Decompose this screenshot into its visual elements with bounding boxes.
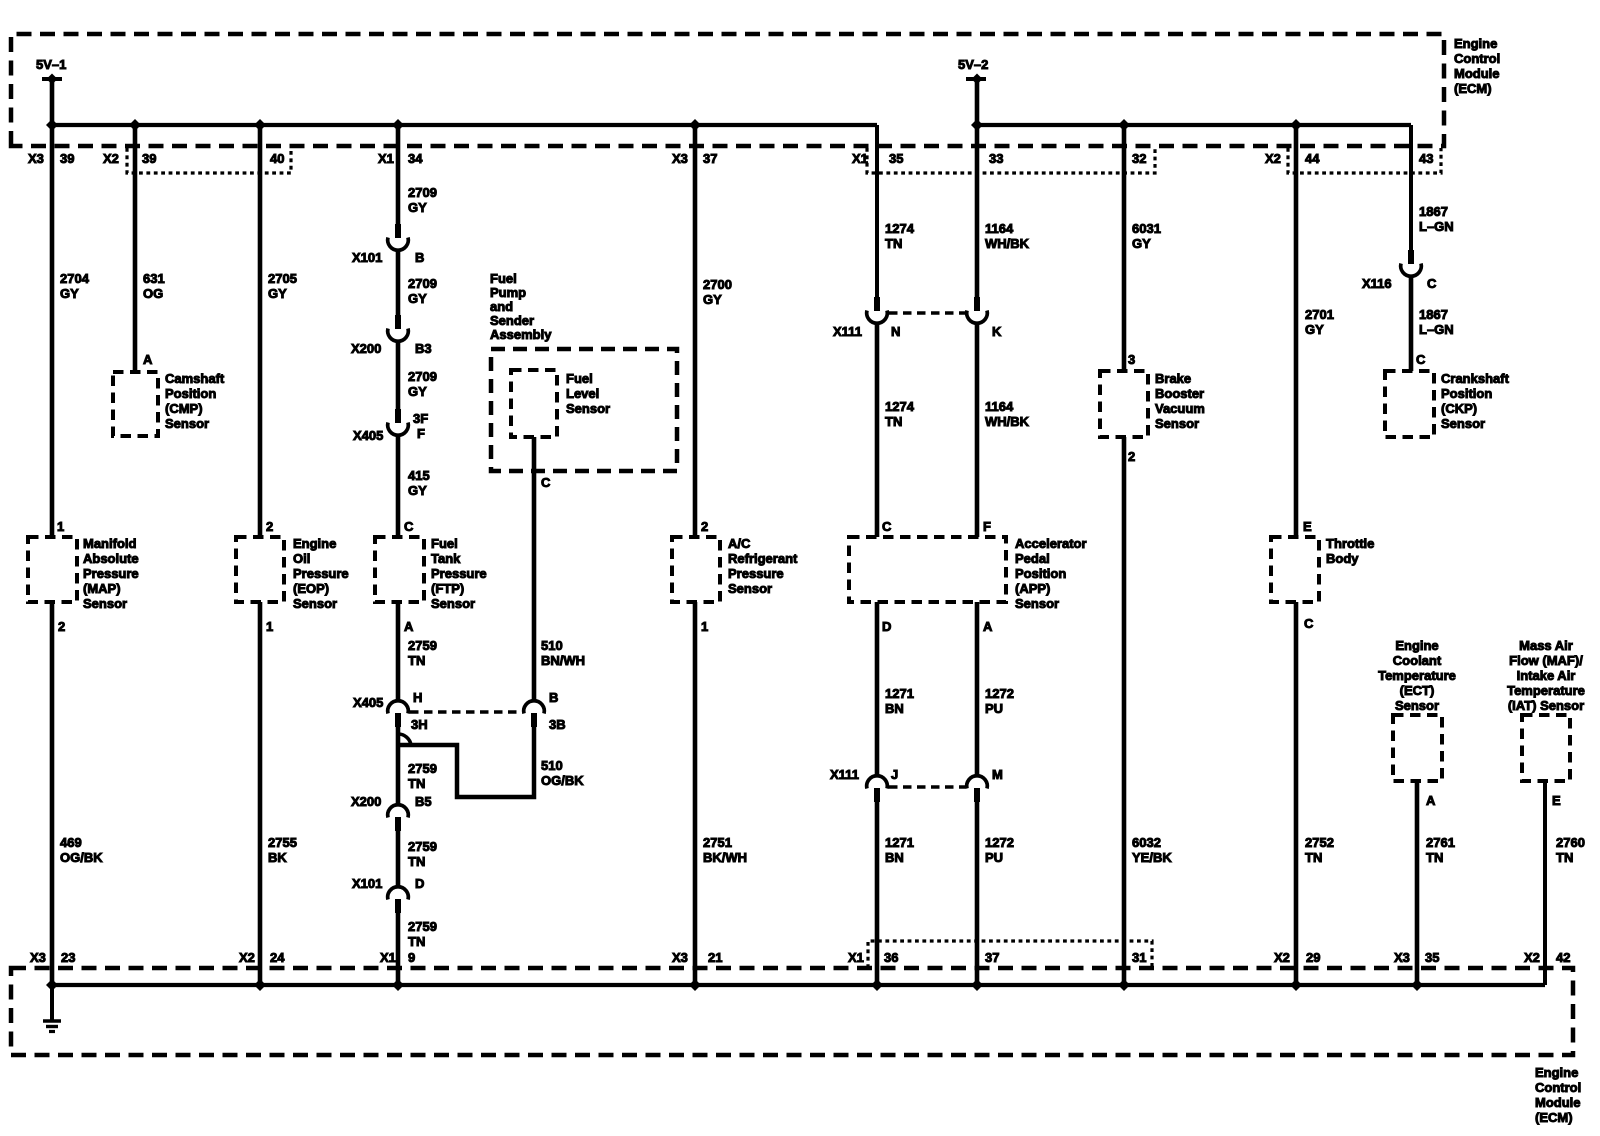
svg-text:Fuel: Fuel — [490, 271, 517, 286]
svg-text:GY: GY — [268, 286, 287, 301]
svg-text:1867: 1867 — [1419, 204, 1448, 219]
sensor MAP box — [28, 537, 77, 602]
wire 2761 TN (ECT pin A to pin X3-35) — [1415, 781, 1420, 985]
svg-text:2709: 2709 — [408, 369, 437, 384]
label wire 1271 BN segment 2 — [885, 835, 914, 865]
node X3 pin 35 — [1394, 950, 1439, 965]
svg-text:Assembly: Assembly — [490, 327, 552, 342]
svg-text:Camshaft: Camshaft — [165, 371, 225, 386]
svg-text:Refrigerant: Refrigerant — [728, 551, 798, 566]
label wire 415 GY — [408, 468, 430, 498]
svg-text:B3: B3 — [415, 341, 432, 356]
junction node wire 2701 — [1290, 119, 1302, 131]
svg-text:39: 39 — [142, 151, 156, 166]
FTP caption — [431, 536, 487, 611]
svg-text:6032: 6032 — [1132, 835, 1161, 850]
wire 1272 PU (APP pin A to X111 M) — [975, 602, 980, 777]
connector X101 pin B — [352, 224, 424, 265]
wire 415 GY (X405 F to FTP pin C) — [396, 435, 401, 537]
svg-text:2759: 2759 — [408, 919, 437, 934]
svg-text:X3: X3 — [672, 950, 688, 965]
svg-text:GY: GY — [60, 286, 79, 301]
svg-text:GY: GY — [703, 292, 722, 307]
label wire 2704 GY — [60, 271, 90, 301]
5V-1 voltage feed terminal — [36, 57, 66, 125]
FTP pin C — [404, 519, 414, 534]
label wire 6031 GY — [1132, 221, 1161, 251]
svg-text:(CMP): (CMP) — [165, 401, 203, 416]
label wire 510 BN/WH — [541, 638, 585, 668]
ECT pin A — [1426, 793, 1436, 808]
sensor Throttle Body box — [1271, 537, 1319, 602]
svg-text:2704: 2704 — [60, 271, 90, 286]
svg-text:(CKP): (CKP) — [1441, 401, 1477, 416]
svg-text:Sensor: Sensor — [566, 401, 610, 416]
svg-text:2751: 2751 — [703, 835, 732, 850]
svg-text:Temperature: Temperature — [1507, 683, 1585, 698]
svg-text:X3: X3 — [1394, 950, 1410, 965]
svg-text:2: 2 — [58, 619, 65, 634]
ground bus junction node pin 36 — [871, 979, 883, 991]
svg-text:2752: 2752 — [1305, 835, 1334, 850]
svg-text:1: 1 — [266, 619, 273, 634]
svg-text:TN: TN — [408, 653, 425, 668]
svg-text:2759: 2759 — [408, 638, 437, 653]
svg-text:1164: 1164 — [985, 221, 1014, 236]
svg-text:TN: TN — [1556, 850, 1573, 865]
wire 1271 BN (APP pin D to X111 J) — [875, 602, 880, 777]
svg-text:C: C — [1304, 616, 1314, 631]
MAF/IAT caption — [1507, 638, 1585, 713]
in-line harness link X111 J-M — [889, 785, 965, 789]
svg-text:1274: 1274 — [885, 221, 915, 236]
svg-text:(IAT) Sensor: (IAT) Sensor — [1508, 698, 1584, 713]
svg-text:X200: X200 — [351, 794, 381, 809]
sensor Brake Booster Vacuum box — [1100, 371, 1148, 437]
svg-text:40: 40 — [270, 151, 284, 166]
connector box X1 pins 35-33-32 (top) — [867, 148, 1155, 173]
fuel level sensor pin C — [541, 475, 551, 490]
node pin 33 — [989, 151, 1003, 166]
wire 2701 GY (pin X2-44 to throttle body pin E) — [1294, 125, 1299, 537]
svg-text:B: B — [415, 250, 424, 265]
connector X111 pin N — [833, 297, 900, 339]
connector X200 pin B3 — [351, 315, 432, 356]
svg-text:2759: 2759 — [408, 761, 437, 776]
node X3 pin 39 — [28, 151, 74, 166]
node X2 pin 24 — [239, 950, 285, 965]
connector box X2 pins 39-40 (top) — [127, 148, 291, 173]
BBV caption — [1155, 371, 1205, 431]
svg-text:33: 33 — [989, 151, 1003, 166]
svg-text:2700: 2700 — [703, 277, 732, 292]
svg-text:L–GN: L–GN — [1419, 219, 1454, 234]
connector X405 pin H/3H — [353, 690, 428, 732]
svg-text:6031: 6031 — [1132, 221, 1161, 236]
label wire 2705 GY — [268, 271, 297, 301]
svg-text:Sensor: Sensor — [728, 581, 772, 596]
svg-text:Control: Control — [1535, 1080, 1581, 1095]
svg-text:(MAP): (MAP) — [83, 581, 121, 596]
svg-text:TN: TN — [408, 934, 425, 949]
svg-text:5V–1: 5V–1 — [36, 57, 66, 72]
svg-text:D: D — [882, 619, 891, 634]
svg-text:2: 2 — [1128, 449, 1135, 464]
svg-text:Position: Position — [1015, 566, 1066, 581]
wire 1271 BN (X111 J to pin X1-36) — [875, 802, 880, 985]
svg-text:Sensor: Sensor — [83, 596, 127, 611]
svg-text:Pedal: Pedal — [1015, 551, 1050, 566]
svg-text:Engine: Engine — [1395, 638, 1438, 653]
svg-text:TN: TN — [408, 854, 425, 869]
svg-text:N: N — [891, 324, 900, 339]
svg-text:2: 2 — [266, 519, 273, 534]
connector X111 pin J — [830, 767, 898, 802]
svg-text:Absolute: Absolute — [83, 551, 139, 566]
svg-text:Pressure: Pressure — [293, 566, 349, 581]
svg-text:TN: TN — [1305, 850, 1322, 865]
APP pin C — [882, 519, 892, 534]
svg-text:2709: 2709 — [408, 185, 437, 200]
svg-text:3B: 3B — [549, 717, 566, 732]
svg-text:3F: 3F — [413, 411, 428, 426]
label wire 1271 BN segment 1 — [885, 686, 914, 716]
CMP caption — [165, 371, 225, 431]
svg-text:23: 23 — [61, 950, 75, 965]
wire 2700 GY (pin X3-37 to A/C sensor pin 2) — [693, 125, 698, 537]
svg-text:A: A — [983, 619, 993, 634]
svg-text:B: B — [549, 690, 558, 705]
svg-text:21: 21 — [708, 950, 722, 965]
label wire 1274 TN segment 2 — [885, 399, 915, 429]
label wire 1272 PU segment 2 — [985, 835, 1014, 865]
label wire 2751 BK/WH — [703, 835, 747, 865]
Fuel Level Sensor caption — [566, 371, 610, 416]
svg-text:X1: X1 — [848, 950, 864, 965]
throttle body pin C — [1304, 616, 1314, 631]
wire 2759 TN (FTP pin A to X405 H) — [396, 602, 401, 702]
svg-text:Fuel: Fuel — [566, 371, 593, 386]
wire 1867 L-GN (X116 C to CKP pin C) — [1409, 276, 1414, 371]
wire 2709 GY (X101 B to X200 B3) — [396, 250, 401, 315]
svg-text:(ECM): (ECM) — [1535, 1110, 1573, 1125]
svg-text:Vacuum: Vacuum — [1155, 401, 1205, 416]
svg-text:C: C — [404, 519, 414, 534]
EOP pin 1 — [266, 619, 273, 634]
svg-text:TN: TN — [408, 776, 425, 791]
label wire 2709 GY segment 3 — [408, 369, 437, 399]
svg-text:Sensor: Sensor — [1155, 416, 1199, 431]
svg-text:A: A — [143, 352, 153, 367]
sensor CMP box — [113, 372, 158, 436]
svg-text:1867: 1867 — [1419, 307, 1448, 322]
node X3 pin 23 — [30, 950, 75, 965]
svg-text:Crankshaft: Crankshaft — [1441, 371, 1510, 386]
svg-text:Engine: Engine — [1535, 1065, 1578, 1080]
node X1 pin 9 — [380, 950, 415, 965]
svg-text:(ECM): (ECM) — [1454, 81, 1492, 96]
ground bus junction node pin 31 — [1118, 979, 1130, 991]
wire 510 BN/WH (fuel level sensor to X405 B) — [532, 437, 537, 702]
wire 2759 TN (X405 3H to X200 B5) with splice — [396, 727, 401, 806]
svg-text:1271: 1271 — [885, 835, 914, 850]
svg-text:510: 510 — [541, 758, 563, 773]
svg-text:Accelerator: Accelerator — [1015, 536, 1087, 551]
MAP pin 1 — [57, 519, 64, 534]
label wire 6032 YE/BK — [1132, 835, 1172, 865]
label wire 1272 PU segment 1 — [985, 686, 1014, 716]
CKP pin C — [1416, 352, 1426, 367]
Engine Control Module (ECM) top dashed box — [11, 34, 1444, 146]
junction node 5V-1 / bus — [46, 119, 58, 131]
svg-text:D: D — [415, 876, 424, 891]
connector X101 pin D — [352, 876, 424, 913]
svg-text:K: K — [992, 324, 1002, 339]
connector X405 pin 3F/F — [353, 409, 428, 443]
ECM bottom caption — [1535, 1065, 1581, 1125]
svg-text:X2: X2 — [1274, 950, 1290, 965]
svg-text:GY: GY — [1132, 236, 1151, 251]
connector X116 pin C — [1362, 250, 1437, 291]
wire 2709 GY (pin X1-34 to X101 B) — [396, 125, 401, 224]
svg-text:L–GN: L–GN — [1419, 322, 1454, 337]
in-line harness link X405 H-B — [410, 710, 522, 714]
svg-text:Position: Position — [1441, 386, 1492, 401]
svg-text:BN/WH: BN/WH — [541, 653, 585, 668]
svg-text:Sensor: Sensor — [431, 596, 475, 611]
wire 469 OG/BK (MAP pin 2 to pin X3-23) — [50, 602, 55, 985]
svg-text:A: A — [404, 619, 414, 634]
ground bus junction node pin 35 — [1411, 979, 1423, 991]
svg-text:BN: BN — [885, 850, 904, 865]
svg-text:Sensor: Sensor — [165, 416, 209, 431]
svg-text:X3: X3 — [28, 151, 44, 166]
svg-text:Control: Control — [1454, 51, 1500, 66]
node pin 37 — [985, 950, 999, 965]
MAP pin 2 — [58, 619, 65, 634]
svg-text:2: 2 — [701, 519, 708, 534]
MAF pin E — [1552, 793, 1561, 808]
svg-text:469: 469 — [60, 835, 82, 850]
5V-2 voltage feed terminal — [958, 57, 988, 125]
svg-text:1: 1 — [701, 619, 708, 634]
APP caption — [1015, 536, 1087, 611]
svg-text:Manifold: Manifold — [83, 536, 136, 551]
splice node on wire 2759 — [398, 734, 411, 745]
svg-text:WH/BK: WH/BK — [985, 414, 1030, 429]
Throttle Body caption — [1326, 536, 1374, 566]
svg-text:WH/BK: WH/BK — [985, 236, 1030, 251]
svg-text:YE/BK: YE/BK — [1132, 850, 1172, 865]
svg-text:35: 35 — [889, 151, 903, 166]
svg-text:Level: Level — [566, 386, 599, 401]
label wire 631 OG — [143, 271, 165, 301]
svg-text:X111: X111 — [833, 324, 862, 339]
label wire 510 OG/BK — [541, 758, 584, 788]
wire 1274 TN (pin X1-35 to X111 N) — [875, 125, 879, 297]
wire 2751 BK/WH (A/C pin 1 to pin X3-21) — [693, 602, 698, 985]
sensor CKP box — [1385, 371, 1434, 437]
svg-text:3: 3 — [1128, 352, 1135, 367]
svg-text:Sensor: Sensor — [1395, 698, 1439, 713]
svg-text:Engine: Engine — [293, 536, 336, 551]
svg-text:44: 44 — [1305, 151, 1320, 166]
label wire 1867 L-GN segment 1 — [1419, 204, 1454, 234]
svg-text:Sensor: Sensor — [293, 596, 337, 611]
label wire 2701 GY — [1305, 307, 1334, 337]
node X3 pin 21 — [672, 950, 722, 965]
wire 2704 GY (pin X3-39 to MAP pin 1) — [50, 125, 55, 537]
svg-text:TN: TN — [885, 414, 902, 429]
node X1 pin 35 — [852, 151, 903, 166]
wire 2709 GY (X200 B3 to X405 3F) — [396, 341, 401, 409]
svg-text:Throttle: Throttle — [1326, 536, 1374, 551]
svg-text:Sensor: Sensor — [1441, 416, 1485, 431]
node X2 pin 42 — [1524, 950, 1570, 965]
svg-text:Pump: Pump — [490, 285, 526, 300]
wire 1164 WH/BK (X111 K to APP pin F) — [975, 323, 980, 537]
ground bus junction node pin 37 — [971, 979, 983, 991]
A/C sensor caption — [728, 536, 798, 596]
sensor EOP box — [236, 537, 284, 602]
svg-text:(FTP): (FTP) — [431, 581, 464, 596]
svg-text:2701: 2701 — [1305, 307, 1334, 322]
label wire 2709 GY segment 1 — [408, 185, 437, 215]
ECT caption — [1378, 638, 1456, 713]
svg-text:OG/BK: OG/BK — [541, 773, 584, 788]
Fuel Pump and Sender Assembly caption — [490, 271, 552, 342]
node X2 pin 29 — [1274, 950, 1320, 965]
5V reference bus left (wire) — [52, 123, 877, 127]
node pin 32 — [1132, 151, 1146, 166]
sensor MAF/IAT box — [1522, 715, 1570, 781]
Fuel Level Sensor box — [511, 370, 557, 437]
svg-text:9: 9 — [408, 950, 415, 965]
svg-text:2759: 2759 — [408, 839, 437, 854]
label wire 2759 TN segment 3 — [408, 839, 437, 869]
node X3 pin 37 — [672, 151, 717, 166]
svg-text:BN: BN — [885, 701, 904, 716]
svg-text:Pressure: Pressure — [728, 566, 784, 581]
svg-text:H: H — [413, 690, 422, 705]
svg-text:C: C — [882, 519, 892, 534]
wire 6031 GY (pin 32 to BBV pin 3) — [1122, 125, 1127, 371]
svg-text:Oil: Oil — [293, 551, 310, 566]
label wire 1164 WH/BK segment 1 — [985, 221, 1030, 251]
svg-text:3H: 3H — [411, 717, 428, 732]
ground bus junction node pin 21 — [689, 979, 701, 991]
ground bus junction node pin 9 — [392, 979, 404, 991]
svg-text:X101: X101 — [352, 250, 382, 265]
MAP caption — [83, 536, 139, 611]
svg-text:29: 29 — [1306, 950, 1320, 965]
svg-text:OG: OG — [143, 286, 163, 301]
wire 1272 PU (X111 M to pin 37) — [975, 802, 980, 985]
node pin 31 — [1132, 950, 1146, 965]
wire 1274 TN (X111 N to APP pin C) — [875, 323, 880, 537]
svg-text:Coolant: Coolant — [1393, 653, 1442, 668]
svg-text:X3: X3 — [672, 151, 688, 166]
svg-text:X2: X2 — [1265, 151, 1281, 166]
svg-text:E: E — [1552, 793, 1561, 808]
connector box X1 pins 36-37-31 (bottom) — [868, 941, 1152, 968]
EOP caption — [293, 536, 349, 611]
ECM top caption — [1454, 36, 1500, 96]
svg-text:39: 39 — [60, 151, 74, 166]
CMP pin A — [143, 352, 153, 367]
svg-text:36: 36 — [884, 950, 898, 965]
svg-text:Pressure: Pressure — [83, 566, 139, 581]
svg-text:Sender: Sender — [490, 313, 534, 328]
svg-text:1274: 1274 — [885, 399, 915, 414]
svg-text:5V–2: 5V–2 — [958, 57, 988, 72]
label wire 1164 WH/BK segment 2 — [985, 399, 1030, 429]
Engine Control Module (ECM) bottom dashed box — [11, 968, 1573, 1055]
svg-text:1164: 1164 — [985, 399, 1014, 414]
EOP pin 2 — [266, 519, 273, 534]
label wire 1867 L-GN segment 2 — [1419, 307, 1454, 337]
svg-text:(ECT): (ECT) — [1400, 683, 1435, 698]
connector box X2 pins 44-43 (top) — [1288, 148, 1441, 173]
svg-text:2755: 2755 — [268, 835, 297, 850]
label wire 2759 TN segment 4 — [408, 919, 437, 949]
svg-text:35: 35 — [1425, 950, 1439, 965]
svg-text:1272: 1272 — [985, 835, 1014, 850]
svg-text:BK: BK — [268, 850, 287, 865]
label wire 1274 TN segment 1 — [885, 221, 915, 251]
CKP caption — [1441, 371, 1510, 431]
svg-text:B5: B5 — [415, 794, 432, 809]
svg-text:C: C — [541, 475, 551, 490]
wire 2755 BK (EOP pin 1 to pin X2-24) — [258, 602, 263, 985]
svg-text:Body: Body — [1326, 551, 1359, 566]
svg-text:TN: TN — [1426, 850, 1443, 865]
svg-text:631: 631 — [143, 271, 165, 286]
svg-text:PU: PU — [985, 850, 1003, 865]
wire 510 OG/BK (X405 3B to splice) — [400, 727, 534, 797]
connector X200 pin B5 — [351, 794, 432, 831]
svg-text:(APP): (APP) — [1015, 581, 1050, 596]
node X2 pin 39 — [103, 151, 156, 166]
svg-text:X111: X111 — [830, 767, 859, 782]
junction node wire 2709 — [392, 119, 404, 131]
svg-text:X3: X3 — [30, 950, 46, 965]
svg-text:J: J — [891, 767, 898, 782]
ground bus junction node pin 29 — [1290, 979, 1302, 991]
svg-text:X116: X116 — [1362, 276, 1392, 291]
connector X405 pin B/3B — [524, 690, 566, 732]
svg-text:37: 37 — [985, 950, 999, 965]
svg-text:24: 24 — [270, 950, 285, 965]
APP pin D — [882, 619, 891, 634]
sensor ECT box — [1393, 715, 1442, 781]
ground bus junction node pin 24 — [254, 979, 266, 991]
label wire 2760 TN — [1556, 835, 1585, 865]
svg-text:42: 42 — [1556, 950, 1570, 965]
in-line harness link X111 N-K — [889, 311, 965, 315]
svg-text:Engine: Engine — [1454, 36, 1497, 51]
A/C pin 2 — [701, 519, 708, 534]
wire 2705 GY (pin 40 to EOP pin 2) — [258, 125, 263, 537]
svg-text:1: 1 — [57, 519, 64, 534]
svg-text:GY: GY — [408, 200, 427, 215]
junction node wire 2700 — [689, 119, 701, 131]
throttle body pin E — [1303, 519, 1312, 534]
svg-text:X2: X2 — [239, 950, 255, 965]
svg-text:2760: 2760 — [1556, 835, 1585, 850]
junction node wire 2705 — [254, 119, 266, 131]
sensor FTP box — [375, 537, 424, 602]
